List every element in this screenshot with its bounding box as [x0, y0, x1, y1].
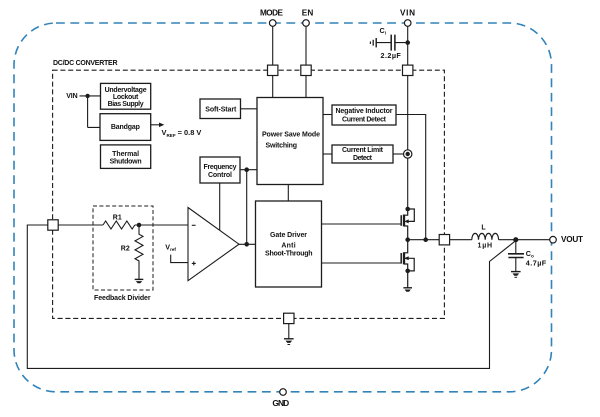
svg-text:GND: GND — [272, 398, 289, 408]
comparator inverting input mark — [192, 224, 196, 226]
svg-text:Vref: Vref — [165, 242, 176, 252]
wire gate driver to Q2 gate — [322, 262, 402, 264]
capacitor Co — [508, 240, 524, 272]
inner dashed box DC/DC CONVERTER — [53, 70, 445, 318]
pin square GND — [284, 313, 294, 323]
junction frequency node — [244, 167, 249, 172]
wire PSM to Negative Inductor Current Detect — [323, 114, 332, 116]
svg-text:MODE: MODE — [260, 8, 284, 17]
svg-text:Ci: Ci — [380, 26, 386, 36]
block Soft-Start — [200, 99, 241, 119]
junction Q2 source / body — [405, 269, 410, 274]
wire SW pin to inductor — [450, 239, 472, 241]
block Negative Inductor Current Detect — [332, 105, 396, 125]
svg-text:Frequency: Frequency — [204, 164, 237, 171]
svg-text:Shoot-Through: Shoot-Through — [265, 250, 313, 257]
junction VIN / Ci — [405, 40, 410, 45]
wire feedback loop VOUT to FB pin — [27, 225, 516, 368]
transistor Q2 (low-side MOSFET) — [401, 240, 414, 288]
capacitor Ci — [376, 35, 408, 51]
junction Q1 drain / VIN — [405, 207, 410, 212]
wire Current Limit Detect to VIN sense node — [393, 153, 403, 155]
svg-text:L: L — [481, 225, 486, 232]
arrow VREF output of Bandgap — [151, 124, 160, 126]
block Bandgap — [100, 114, 151, 141]
svg-text:Lockout: Lockout — [113, 94, 139, 101]
ground internal GND — [284, 339, 294, 345]
pin GND — [280, 389, 287, 396]
svg-text:Anti: Anti — [281, 242, 295, 249]
wire FB pin square to R1 — [58, 224, 103, 226]
pin MODE — [269, 20, 276, 27]
IC package boundary (blue dashed rounded rect) — [14, 23, 552, 392]
transistor Q1 (high-side MOSFET) — [401, 209, 414, 240]
svg-text:VOUT: VOUT — [561, 235, 583, 244]
svg-text:2.2µF: 2.2µF — [381, 51, 402, 60]
svg-text:Bandgap: Bandgap — [111, 124, 140, 131]
junction VOUT node — [513, 237, 518, 242]
pin square MODE — [268, 65, 278, 75]
pin square VIN — [403, 65, 413, 75]
junction switch node at Q1/Q2 — [405, 237, 410, 242]
wire MODE pin to Power Save Mode Switching — [272, 26, 274, 97]
wire Soft-Start to PSM — [241, 108, 258, 110]
wire Frequency Control to PSM — [240, 169, 257, 171]
junction VIN branch — [85, 94, 89, 98]
svg-text:VIN: VIN — [66, 93, 78, 100]
svg-text:Current Detect: Current Detect — [342, 117, 387, 124]
wire R1 to comparator inverting input — [135, 224, 188, 226]
ground Q2 source — [403, 288, 412, 292]
svg-text:Detect: Detect — [353, 155, 373, 162]
svg-text:Control: Control — [208, 172, 232, 179]
wire gate driver to Q1 gate — [322, 223, 402, 225]
svg-text:Switching: Switching — [266, 143, 298, 150]
pin square SW — [439, 235, 449, 245]
wire inductor to VOUT pin — [499, 239, 550, 241]
block Power Save Mode Switching — [257, 98, 323, 185]
block Undervoltage Lockout Bias Supply — [101, 83, 151, 109]
block Gate Driver Anti Shoot-Through — [256, 201, 322, 287]
wire Negative Inductor Current Detect to switch node — [396, 115, 426, 240]
resistor R2 — [135, 225, 143, 279]
svg-text:Undervoltage: Undervoltage — [105, 87, 147, 94]
wire GND pin square to ground — [288, 324, 290, 339]
wire comparator output to Gate Driver — [239, 243, 256, 245]
svg-text:R2: R2 — [121, 245, 130, 252]
wire EN pin to Power Save Mode Switching — [305, 26, 307, 97]
pin square EN — [301, 65, 311, 75]
ground R2 — [135, 279, 144, 283]
junction R1/R2 — [137, 223, 142, 228]
wire VIN pin down to high-side FET — [407, 26, 409, 209]
wire PSM to Current Limit Detect — [323, 153, 332, 155]
junction comparator output node — [244, 242, 249, 247]
wire VREF to non-inverting input — [171, 255, 188, 263]
svg-text:VREF = 0.8 V: VREF = 0.8 V — [162, 128, 202, 138]
resistor R1 — [103, 221, 135, 229]
svg-text:Shutdown: Shutdown — [110, 158, 142, 165]
pin VIN — [404, 20, 411, 27]
svg-text:Co: Co — [526, 249, 534, 259]
svg-text:Soft-Start: Soft-Start — [205, 107, 237, 114]
wire PSM to Gate Driver — [287, 185, 289, 202]
svg-text:Negative Inductor: Negative Inductor — [336, 108, 393, 115]
svg-text:VIN: VIN — [400, 8, 415, 17]
comparator non-inverting input mark — [192, 261, 196, 265]
wire switch node to SW pin square — [408, 239, 440, 241]
ground Co — [511, 272, 521, 278]
svg-text:Current Limit: Current Limit — [342, 147, 384, 154]
pin square FB — [48, 220, 58, 230]
svg-text:R1: R1 — [113, 214, 122, 221]
block Thermal Shutdown — [101, 145, 151, 169]
node VIN current sense (circled dot) — [404, 150, 412, 158]
feedback divider dashed box — [93, 206, 153, 290]
junction switch node / negative inductor sense — [423, 237, 428, 242]
block Frequency Control — [200, 157, 240, 183]
svg-text:Bias Supply: Bias Supply — [108, 101, 144, 108]
wire frequency node down to comparator output node — [246, 170, 248, 245]
wire Frequency Control to comparator — [219, 183, 221, 230]
svg-text:Thermal: Thermal — [112, 151, 139, 158]
svg-text:Power Save Mode: Power Save Mode — [262, 131, 320, 138]
svg-text:1µH: 1µH — [478, 242, 493, 249]
op-amp comparator U1 — [188, 208, 239, 281]
inductor L — [472, 233, 499, 239]
ground for Ci (rotated) — [370, 38, 376, 47]
svg-text:4.7µF: 4.7µF — [526, 258, 547, 267]
pin VOUT — [550, 236, 557, 243]
svg-text:DC/DC CONVERTER: DC/DC CONVERTER — [53, 60, 118, 67]
svg-text:EN: EN — [302, 8, 314, 17]
pin EN — [303, 20, 310, 27]
wire VIN label to UVLO and Bandgap — [80, 96, 101, 128]
block Current Limit Detect — [332, 145, 393, 163]
svg-text:Gate Driver: Gate Driver — [270, 232, 307, 239]
svg-text:Feedback Divider: Feedback Divider — [94, 295, 151, 302]
